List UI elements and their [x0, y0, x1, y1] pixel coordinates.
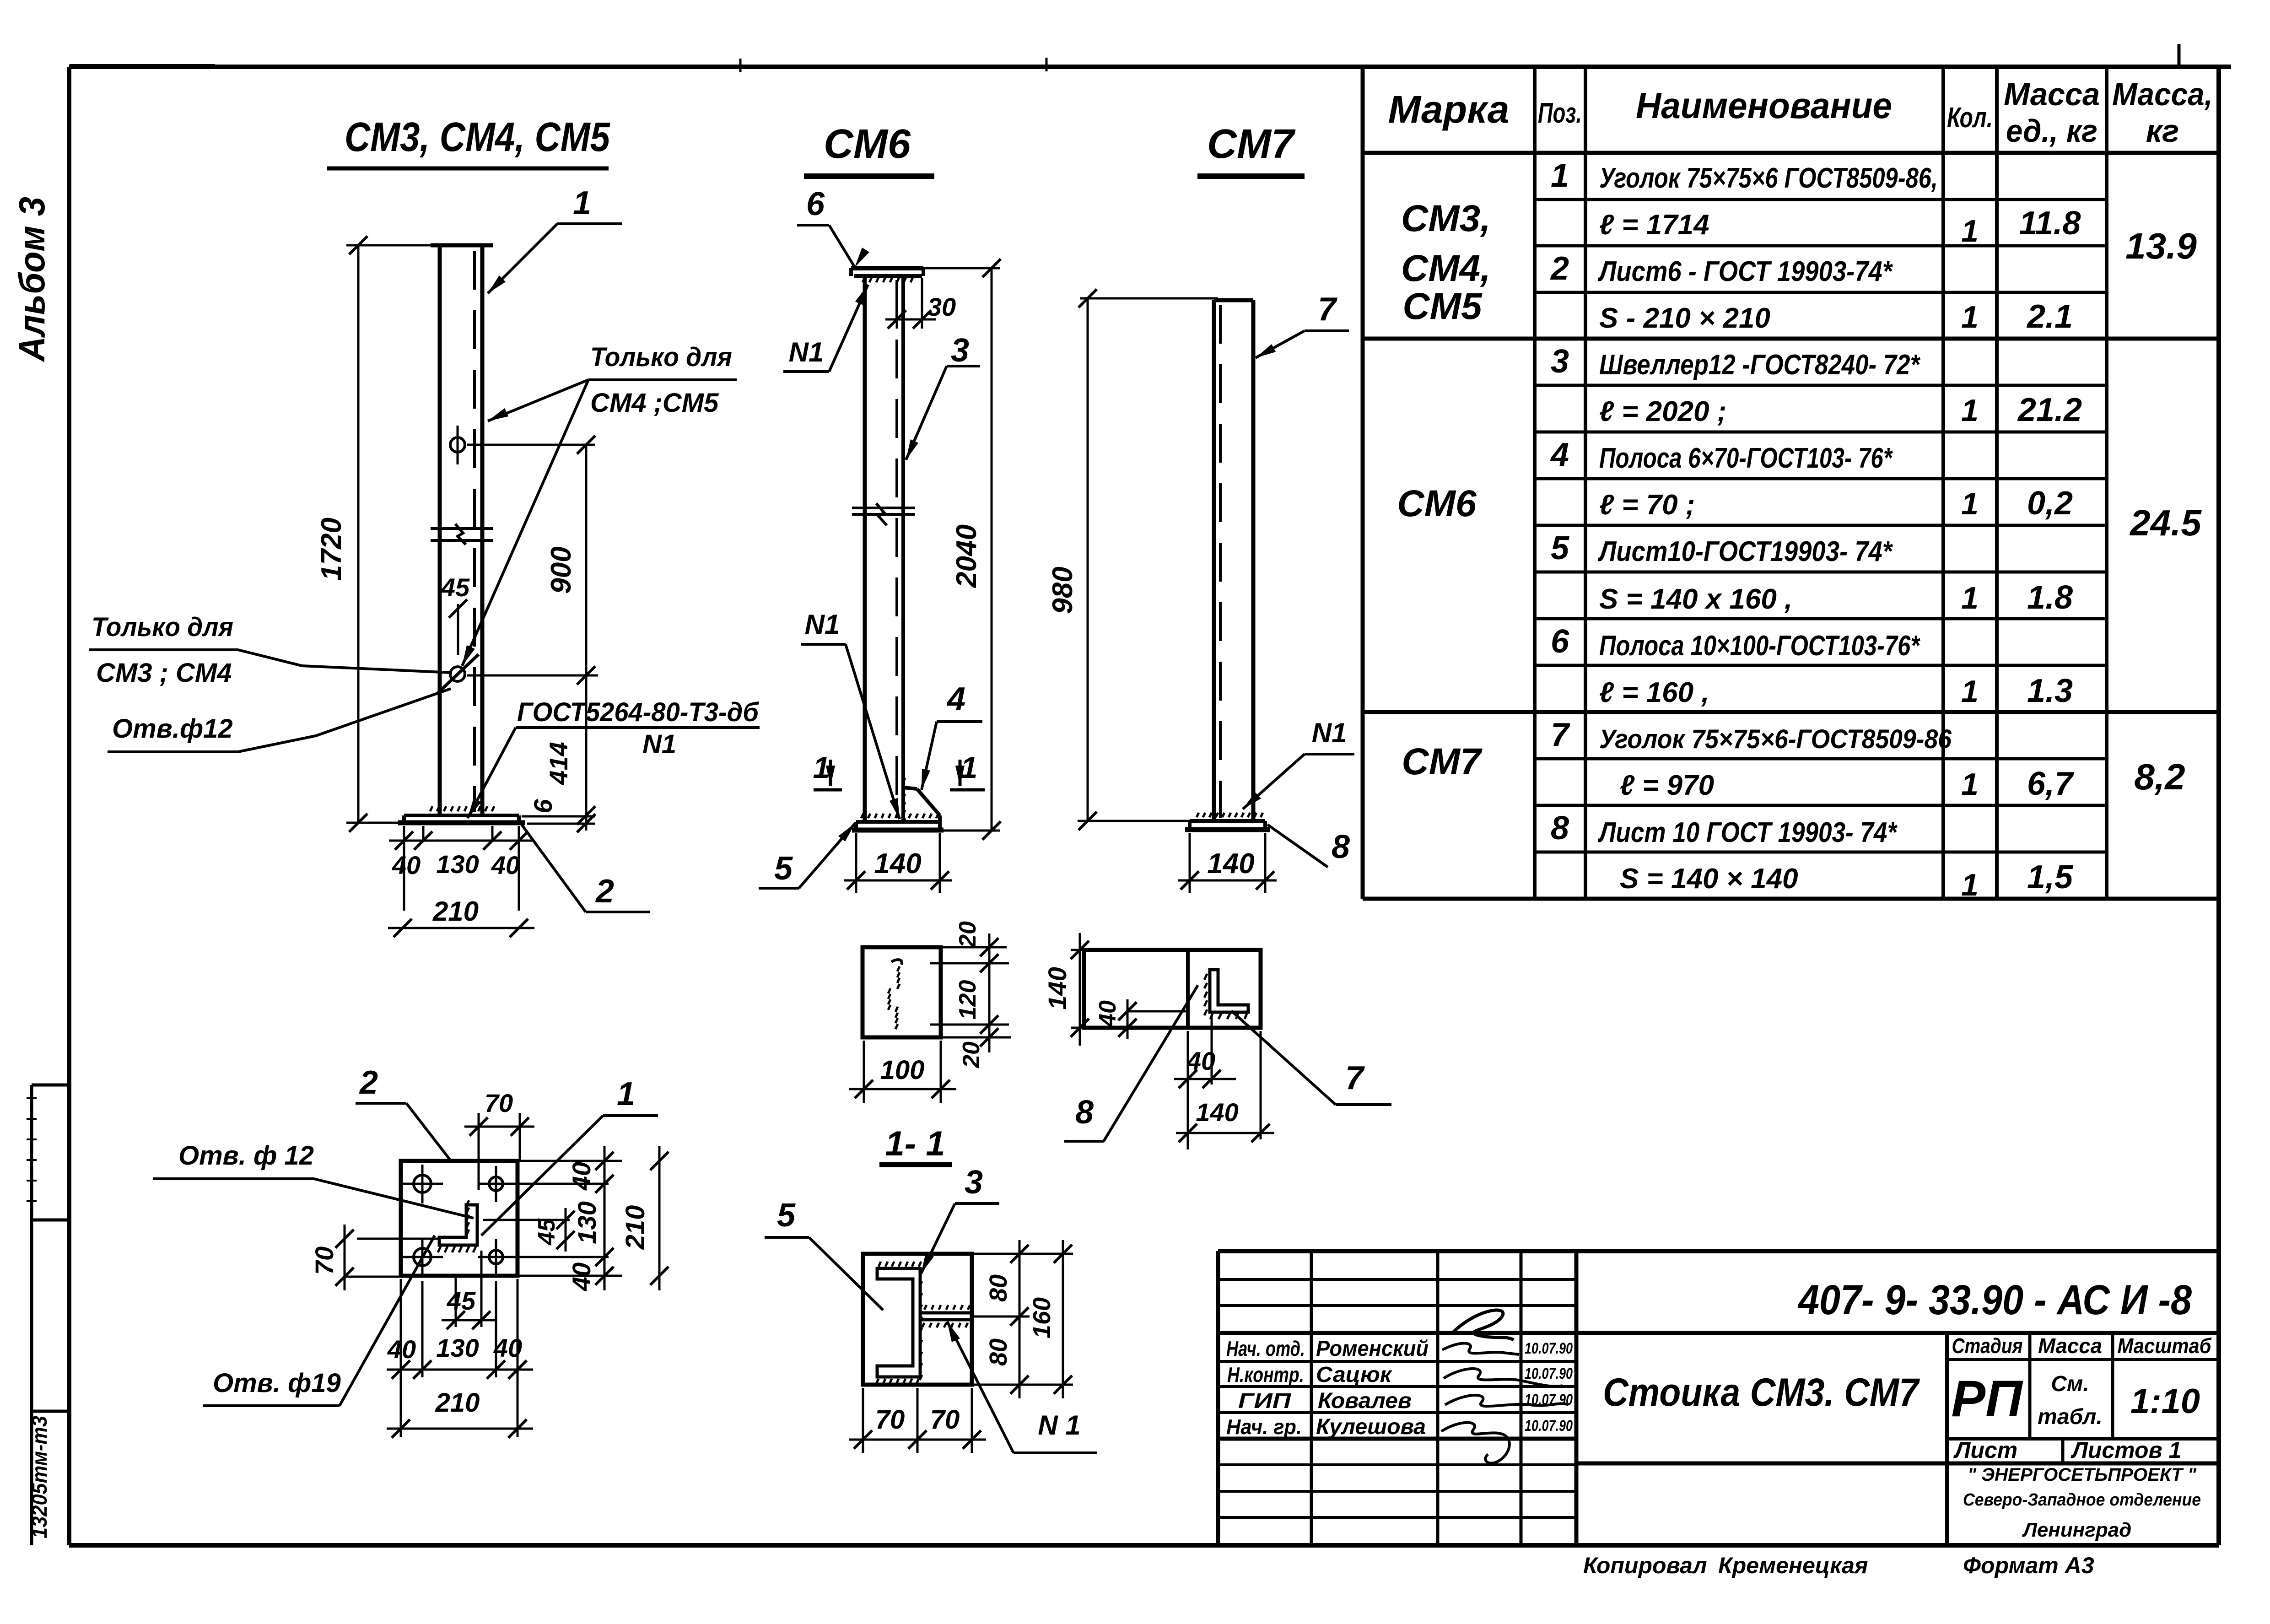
dimension 30 — [885, 278, 956, 329]
svg-text:ℓ = 70 ;: ℓ = 70 ; — [1599, 489, 1695, 521]
label N1 section — [947, 1322, 1097, 1453]
part 7 angle column elevation — [1214, 300, 1253, 821]
svg-text:1.8: 1.8 — [2027, 579, 2073, 616]
svg-text:40: 40 — [493, 1333, 522, 1362]
svg-text:70: 70 — [485, 1089, 513, 1117]
svg-text:Ленинград: Ленинград — [2022, 1519, 2132, 1541]
svg-text:2.1: 2.1 — [2026, 298, 2073, 335]
svg-text:S - 210 × 210: S - 210 × 210 — [1599, 302, 1770, 334]
label N1 СМ7 — [1243, 718, 1354, 809]
dimension 70 top — [464, 1089, 534, 1190]
dimension 900 — [467, 436, 598, 685]
svg-text:1: 1 — [1961, 214, 1979, 248]
footer notes — [1583, 1553, 2094, 1578]
dimension 70 left — [310, 1225, 440, 1290]
label 7 leader — [1256, 291, 1349, 358]
svg-text:Формат А3: Формат А3 — [1963, 1553, 2094, 1578]
label 2 plan leader — [356, 1064, 452, 1162]
svg-text:Листов 1: Листов 1 — [2071, 1437, 2182, 1463]
svg-text:6: 6 — [806, 186, 825, 222]
base plate part 5 elevation — [852, 814, 944, 830]
dimension 40 130 40 below base — [389, 826, 533, 911]
svg-text:S = 140 × 140: S = 140 × 140 — [1620, 863, 1798, 895]
svg-text:1: 1 — [1961, 767, 1979, 802]
quantity column — [1961, 214, 1979, 902]
svg-text:Полоса 10×100-ГОСТ103-76*: Полоса 10×100-ГОСТ103-76* — [1599, 630, 1920, 662]
svg-text:Н.контр.: Н.контр. — [1227, 1363, 1304, 1387]
flat bar cross-section — [920, 1305, 972, 1327]
mark column entries — [1397, 198, 1491, 782]
border registration ticks — [740, 58, 1046, 72]
svg-text:СМ3, СМ4, СМ5: СМ3, СМ4, СМ5 — [345, 114, 611, 160]
break symbol СМ6 — [852, 503, 915, 525]
label 5 section — [765, 1197, 883, 1310]
svg-text:5: 5 — [774, 850, 793, 887]
title block grid — [1218, 1251, 2219, 1545]
svg-text:7: 7 — [1318, 291, 1337, 328]
part 6 top strip plate — [851, 268, 923, 282]
weld note ГОСТ5264-80-Т3-д6 N1 — [468, 697, 760, 818]
svg-text:100: 100 — [880, 1055, 925, 1085]
dimension 2040 — [923, 259, 1001, 840]
label 3 section — [921, 1164, 999, 1273]
hole ф12 top-right — [478, 1166, 515, 1202]
part 8 plate plan 140x140 — [1084, 950, 1261, 1028]
svg-text:140: 140 — [1043, 967, 1072, 1009]
svg-text:1: 1 — [1961, 868, 1979, 902]
svg-text:13205тм-т3: 13205тм-т3 — [27, 1416, 51, 1538]
dimension 210 bottom — [387, 1388, 533, 1438]
view title СМ3, СМ4, СМ5 — [327, 114, 611, 168]
base plate part 2 elevation — [398, 806, 525, 823]
svg-text:140: 140 — [1207, 848, 1254, 879]
position numbers — [1550, 157, 1570, 847]
signature rows — [1226, 1337, 1573, 1439]
svg-text:45: 45 — [441, 573, 470, 602]
tiny margin marks — [27, 1098, 37, 1201]
svg-text:900: 900 — [545, 546, 577, 593]
dimension 40 inner left — [1095, 999, 1188, 1039]
svg-text:Марка: Марка — [1388, 88, 1510, 131]
label N1 lower СМ6 — [801, 609, 900, 819]
svg-text:140: 140 — [874, 848, 921, 879]
svg-text:СМ6: СМ6 — [1397, 483, 1477, 524]
left margin stamp boxes — [32, 1085, 69, 1545]
svg-text:70: 70 — [930, 1405, 960, 1435]
svg-text:130: 130 — [572, 1201, 601, 1244]
svg-text:1- 1: 1- 1 — [885, 1124, 945, 1163]
dimensions 20 120 20 — [930, 921, 1011, 1068]
dimension 140 left — [1043, 933, 1089, 1046]
label 8 leader — [1267, 825, 1350, 867]
label 7 plan leader — [1231, 1011, 1391, 1105]
svg-text:Наименование: Наименование — [1636, 85, 1892, 126]
svg-text:1.3: 1.3 — [2027, 673, 2073, 709]
svg-text:5: 5 — [1551, 530, 1569, 567]
part 7 angle cross-section in plan — [1204, 970, 1248, 1019]
svg-text:10.07.90: 10.07.90 — [1525, 1365, 1573, 1382]
dimension 45 mid — [441, 573, 470, 655]
svg-text:Отв. ф 12: Отв. ф 12 — [178, 1141, 314, 1171]
part 1 angle column elevation — [431, 245, 493, 815]
svg-text:120: 120 — [954, 980, 981, 1020]
svg-text:N1: N1 — [642, 729, 676, 759]
svg-text:СМ7: СМ7 — [1402, 741, 1483, 782]
svg-text:30: 30 — [927, 292, 956, 321]
dimension 140 СМ7 base — [1178, 833, 1277, 893]
svg-text:20: 20 — [954, 921, 981, 948]
dimension 414 and 6 — [522, 675, 595, 832]
svg-text:Лист10-ГОСТ19903- 74*: Лист10-ГОСТ19903- 74* — [1597, 536, 1893, 567]
svg-text:1: 1 — [617, 1076, 635, 1112]
svg-text:ГИП: ГИП — [1238, 1389, 1291, 1413]
stamp small headers — [1951, 1334, 2212, 1463]
svg-text:3: 3 — [1551, 343, 1569, 380]
svg-text:24.5: 24.5 — [2129, 502, 2202, 543]
unit mass column — [2017, 205, 2082, 896]
drawing name Стойка СМ3 СМ7 — [1603, 1370, 1920, 1414]
svg-text:210: 210 — [620, 1205, 650, 1250]
dimensions 80 80 160 — [972, 1240, 1073, 1398]
svg-text:8,2: 8,2 — [2134, 756, 2185, 797]
svg-text:СМ6: СМ6 — [824, 121, 911, 167]
svg-text:ГОСТ5264-80-Т3-дб: ГОСТ5264-80-Т3-дб — [517, 697, 760, 727]
svg-text:1720: 1720 — [316, 518, 347, 581]
inventory number rotated text — [27, 1416, 51, 1538]
svg-text:Роменский: Роменский — [1316, 1337, 1429, 1361]
dimension 210 right — [620, 1146, 669, 1290]
svg-text:80: 80 — [985, 1338, 1012, 1366]
dimension 40 130 40 right — [506, 1146, 622, 1291]
svg-text:40: 40 — [491, 851, 520, 879]
svg-text:1: 1 — [573, 185, 591, 221]
svg-text:Кол.: Кол. — [1947, 102, 1993, 134]
svg-text:См.: См. — [2051, 1372, 2089, 1396]
svg-text:10.07.90: 10.07.90 — [1525, 1340, 1573, 1357]
svg-text:СМ4,: СМ4, — [1401, 248, 1491, 289]
svg-text:Отв.ф12: Отв.ф12 — [112, 714, 233, 744]
channel cross-section — [876, 1262, 922, 1384]
svg-text:11.8: 11.8 — [2019, 205, 2081, 242]
svg-text:6: 6 — [528, 799, 557, 814]
svg-text:140: 140 — [1196, 1098, 1238, 1127]
svg-text:N1: N1 — [789, 337, 824, 367]
svg-text:7: 7 — [1345, 1060, 1365, 1096]
document number 407-9-33.90-АС И-8 — [1797, 1277, 2192, 1323]
svg-text:Лист6 - ГОСТ 19903-74*: Лист6 - ГОСТ 19903-74* — [1597, 256, 1893, 287]
svg-text:СМ7: СМ7 — [1207, 121, 1296, 167]
section title 1-1 — [879, 1124, 952, 1165]
svg-text:Швеллер12 -ГОСТ8240- 72*: Швеллер12 -ГОСТ8240- 72* — [1599, 349, 1920, 381]
hole ф12 bottom-right — [478, 1239, 515, 1275]
svg-text:130: 130 — [436, 1333, 479, 1362]
svg-text:70: 70 — [875, 1405, 905, 1435]
svg-text:2: 2 — [1550, 250, 1569, 287]
svg-text:8: 8 — [1075, 1094, 1094, 1131]
svg-text:Поз.: Поз. — [1538, 97, 1582, 129]
svg-text:Масса,: Масса, — [2112, 76, 2213, 112]
dimensions 70 70 — [849, 1388, 986, 1453]
hole ф12 lower with weld (СМ3,СМ4) — [437, 654, 479, 694]
section mark 1-1 right — [950, 750, 985, 790]
total mass column — [2125, 226, 2202, 797]
svg-text:Сацюк: Сацюк — [1316, 1363, 1393, 1387]
dimension 45 right small — [483, 1208, 575, 1252]
hole ф12 upper (СМ4,СМ5) — [450, 426, 465, 464]
svg-text:Отв. ф19: Отв. ф19 — [213, 1368, 341, 1398]
svg-text:Полоса 6×70-ГОСТ103- 76*: Полоса 6×70-ГОСТ103- 76* — [1599, 442, 1893, 474]
part 3 channel column elevation — [865, 276, 903, 821]
svg-text:160: 160 — [1028, 1297, 1056, 1338]
angle profile in plan — [438, 1200, 477, 1252]
part 5 plate plan 140x160 — [863, 947, 941, 1037]
label N1 upper СМ6 — [783, 285, 868, 372]
label 2 leader — [522, 825, 650, 912]
svg-text:Уголок 75×75×6 ГОСТ8509-86,: Уголок 75×75×6 ГОСТ8509-86, — [1599, 162, 1938, 194]
svg-text:1: 1 — [1961, 581, 1979, 615]
svg-text:1: 1 — [1961, 300, 1979, 335]
svg-text:СМ4 ;СМ5: СМ4 ;СМ5 — [590, 388, 719, 418]
svg-text:Лист: Лист — [1953, 1437, 2017, 1463]
note Только для СМ4 СМ5 — [462, 342, 737, 666]
svg-text:210: 210 — [432, 896, 479, 927]
organization name — [1963, 1465, 2201, 1541]
svg-text:2040: 2040 — [951, 524, 982, 588]
dimension 1720 — [316, 236, 435, 832]
svg-text:1:10: 1:10 — [2130, 1382, 2200, 1421]
svg-text:1: 1 — [1961, 486, 1979, 521]
svg-text:СМ3 ; СМ4: СМ3 ; СМ4 — [96, 658, 232, 688]
svg-text:1,5: 1,5 — [2027, 859, 2073, 896]
svg-text:407- 9- 33.90 - АС И -8: 407- 9- 33.90 - АС И -8 — [1797, 1277, 2192, 1323]
base plate 210x210 plan — [401, 1161, 518, 1276]
dimension 980 — [1047, 289, 1218, 830]
svg-text:40: 40 — [567, 1263, 596, 1291]
svg-text:Альбом 3: Альбом 3 — [11, 197, 52, 362]
svg-text:6: 6 — [1551, 623, 1569, 660]
svg-text:ℓ = 970: ℓ = 970 — [1620, 770, 1714, 801]
signatures squiggles — [1441, 1310, 1569, 1463]
dimension 140 bottom — [1176, 1031, 1274, 1149]
label 3 leader — [906, 332, 980, 460]
svg-text:1: 1 — [1961, 674, 1979, 709]
svg-text:980: 980 — [1047, 567, 1078, 614]
svg-text:Масштаб: Масштаб — [2118, 1334, 2212, 1358]
svg-text:2: 2 — [359, 1064, 378, 1101]
svg-text:Нач. отд.: Нач. отд. — [1226, 1337, 1305, 1360]
hole ф19 top-left — [403, 1165, 443, 1203]
svg-text:40: 40 — [567, 1162, 596, 1191]
specification table grid — [1363, 67, 2219, 899]
svg-text:ед., кг: ед., кг — [2006, 113, 2097, 149]
label 8 plan leader — [1064, 985, 1198, 1141]
svg-text:1: 1 — [1961, 393, 1979, 428]
svg-text:Масса: Масса — [2038, 1334, 2102, 1358]
note Отв ф19 plan — [203, 1236, 435, 1406]
svg-text:40: 40 — [387, 1335, 416, 1364]
svg-text:СМ3,: СМ3, — [1401, 198, 1491, 239]
svg-text:80: 80 — [985, 1274, 1012, 1302]
svg-text:РП: РП — [1951, 1370, 2023, 1427]
section plate 140x160 — [863, 1254, 972, 1385]
svg-text:Лист 10 ГОСТ 19903- 74*: Лист 10 ГОСТ 19903- 74* — [1598, 817, 1898, 848]
svg-text:Уголок 75×75×6-ГОСТ8509-86: Уголок 75×75×6-ГОСТ8509-86 — [1599, 724, 1952, 754]
svg-text:7: 7 — [1551, 717, 1570, 753]
svg-text:N1: N1 — [1312, 718, 1347, 748]
svg-text:3: 3 — [965, 1164, 983, 1201]
svg-text:10.07.90: 10.07.90 — [1525, 1417, 1573, 1435]
svg-text:20: 20 — [958, 1041, 985, 1068]
label 1 leader — [488, 185, 622, 293]
svg-text:табл.: табл. — [2038, 1405, 2103, 1429]
svg-text:Кременецкая: Кременецкая — [1718, 1553, 1868, 1578]
note Отв ф 12 plan — [153, 1141, 474, 1218]
dimension 140 СМ6 base — [844, 833, 952, 893]
break symbol — [431, 524, 493, 545]
svg-text:Нач. гр.: Нач. гр. — [1226, 1415, 1302, 1439]
svg-text:Копировал: Копировал — [1583, 1553, 1707, 1578]
svg-text:0,2: 0,2 — [2027, 485, 2073, 522]
svg-text:" ЭНЕРГОСЕТЬПРОЕКТ ": " ЭНЕРГОСЕТЬПРОЕКТ " — [1968, 1465, 2197, 1485]
svg-text:45: 45 — [447, 1286, 476, 1315]
svg-text:40: 40 — [1095, 1000, 1121, 1027]
svg-text:N1: N1 — [805, 609, 840, 640]
svg-text:Масса: Масса — [2004, 76, 2100, 112]
svg-text:5: 5 — [777, 1197, 796, 1234]
note Отв ф12 — [108, 689, 451, 752]
dimension 45 bottom small — [442, 1251, 496, 1329]
sheet number mark top right — [2178, 44, 2181, 68]
svg-text:130: 130 — [436, 850, 479, 879]
svg-text:Кулешова: Кулешова — [1316, 1415, 1426, 1439]
svg-text:8: 8 — [1551, 810, 1569, 847]
view title СМ6 — [804, 121, 934, 176]
dimension 40 bottom — [1174, 1015, 1236, 1088]
svg-text:Только для: Только для — [590, 342, 732, 372]
svg-text:8: 8 — [1332, 829, 1350, 865]
item names — [1597, 162, 1952, 895]
svg-text:3: 3 — [951, 332, 969, 369]
table headers — [1388, 76, 2213, 149]
base plate part 8 elevation — [1185, 813, 1270, 830]
part 4 gusset bracket — [903, 778, 940, 824]
svg-text:Стадия: Стадия — [1952, 1334, 2023, 1358]
svg-text:Северо-Западное отделение: Северо-Западное отделение — [1963, 1490, 2201, 1510]
note Только для СМ3 СМ4 — [89, 612, 452, 688]
svg-text:N 1: N 1 — [1038, 1410, 1080, 1441]
album note rotated text — [11, 197, 52, 362]
svg-text:Ковалев: Ковалев — [1318, 1389, 1412, 1413]
svg-text:21.2: 21.2 — [2017, 392, 2082, 428]
view title СМ7 — [1197, 121, 1305, 176]
svg-text:40: 40 — [392, 851, 421, 879]
svg-text:S = 140 х 160 ,: S = 140 х 160 , — [1599, 583, 1792, 615]
label 5 leader — [759, 823, 855, 888]
svg-text:40: 40 — [1186, 1047, 1215, 1075]
dimension 210 below base — [388, 896, 534, 937]
svg-text:1: 1 — [1551, 157, 1569, 194]
section mark 1-1 left — [813, 750, 842, 790]
svg-text:210: 210 — [435, 1388, 480, 1418]
svg-text:Стоика СМ3. СМ7: Стоика СМ3. СМ7 — [1603, 1370, 1920, 1414]
svg-text:13.9: 13.9 — [2125, 226, 2197, 266]
label 6 leader — [797, 186, 869, 267]
svg-text:70: 70 — [310, 1246, 339, 1275]
svg-text:ℓ = 2020 ;: ℓ = 2020 ; — [1599, 396, 1726, 427]
svg-text:2: 2 — [595, 873, 614, 910]
label 4 leader — [922, 681, 982, 790]
svg-text:4: 4 — [1550, 437, 1569, 473]
svg-text:Только для: Только для — [92, 612, 233, 642]
svg-text:кг: кг — [2146, 113, 2179, 149]
svg-text:6,7: 6,7 — [2027, 766, 2074, 802]
svg-text:414: 414 — [544, 742, 573, 785]
svg-text:ℓ = 1714: ℓ = 1714 — [1599, 209, 1709, 241]
hole ф19 bottom-left — [403, 1238, 443, 1277]
svg-text:4: 4 — [946, 681, 965, 718]
dimension 40 130 40 bottom — [387, 1279, 533, 1437]
label 1 plan leader — [481, 1076, 658, 1236]
dimension 100 — [849, 1041, 956, 1103]
svg-text:СМ5: СМ5 — [1402, 286, 1483, 327]
svg-text:ℓ = 160 ,: ℓ = 160 , — [1599, 677, 1709, 708]
svg-text:45: 45 — [534, 1218, 560, 1246]
